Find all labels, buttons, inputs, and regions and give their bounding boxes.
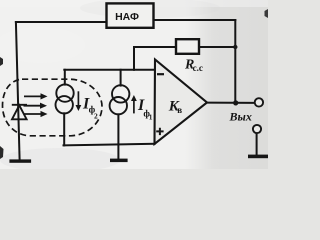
svg-text:1: 1	[149, 113, 153, 122]
svg-text:в: в	[177, 105, 182, 115]
svg-text:2: 2	[94, 111, 98, 120]
svg-text:НАФ: НАФ	[115, 11, 139, 23]
svg-text:Вых: Вых	[229, 110, 252, 124]
svg-text:с.с: с.с	[193, 63, 203, 73]
